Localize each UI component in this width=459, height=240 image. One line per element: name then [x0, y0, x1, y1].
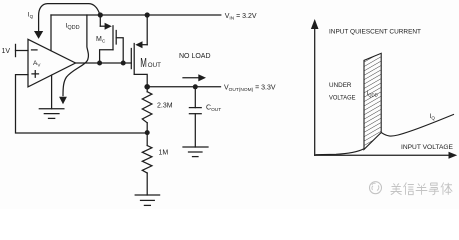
svg-text:UNDER: UNDER: [329, 82, 352, 89]
svg-text:INPUT QUIESCENT CURRENT: INPUT QUIESCENT CURRENT: [329, 28, 421, 35]
watermark text 美信半导体: [391, 183, 453, 195]
ground 1M: [135, 195, 159, 205]
svg-text:2.3M: 2.3M: [157, 103, 173, 110]
wire gate bus MC drain to MOUT gate: [100, 62, 132, 64]
source 1V reference: [16, 44, 29, 56]
arrow load current (no load): [183, 74, 206, 81]
wire op-amp supply drop: [50, 15, 52, 51]
半: [416, 184, 428, 195]
svg-text:INPUT VOLTAGE: INPUT VOLTAGE: [401, 144, 453, 151]
graph hatched IQDD spike region: [364, 53, 381, 149]
svg-text:1V: 1V: [2, 48, 11, 55]
wire feedback to + input: [16, 75, 148, 133]
resistor 2.3M: [142, 87, 152, 133]
美: [391, 184, 402, 195]
信: [403, 183, 413, 195]
node VIN dot at MOUT source: [145, 12, 150, 17]
node VIN dot at MC source: [98, 12, 103, 17]
graph x-axis: [315, 152, 458, 159]
体: [441, 183, 452, 195]
svg-text:AV: AV: [33, 60, 41, 68]
svg-text:IQDD: IQDD: [367, 91, 378, 97]
ground op-amp: [39, 75, 64, 118]
arrow IQ input current: [34, 4, 100, 39]
arrow IQDD supply current: [59, 15, 88, 104]
导: [429, 183, 439, 195]
op-amp A_V: [28, 39, 76, 87]
svg-text:1M: 1M: [159, 150, 169, 157]
resistor 1M: [142, 133, 152, 195]
svg-text:IQ: IQ: [28, 12, 34, 20]
svg-text:M: M: [140, 56, 147, 71]
svg-text:NO LOAD: NO LOAD: [179, 53, 211, 60]
svg-text:OUT: OUT: [148, 62, 161, 69]
svg-text:VOUT(NOM) = 3.3V: VOUT(NOM) = 3.3V: [224, 85, 276, 93]
wire VIN top rail: [51, 14, 221, 16]
svg-text:IQDD: IQDD: [66, 23, 80, 32]
graph y-axis: [311, 19, 319, 155]
label M_OUT: [140, 56, 161, 71]
node VOUT junction: [144, 84, 150, 90]
capacitor C_OUT: [189, 87, 201, 147]
watermark logo icon: [370, 182, 382, 194]
wire op-amp output: [76, 62, 100, 64]
svg-text:IQ: IQ: [430, 113, 436, 120]
wire VOUT: [147, 86, 220, 88]
node feedback junction: [145, 130, 150, 135]
svg-text:COUT: COUT: [206, 105, 221, 113]
graph IQ curve: [316, 115, 454, 155]
svg-text:VOLTAGE: VOLTAGE: [329, 94, 356, 101]
svg-text:MC: MC: [96, 36, 106, 45]
transistor M_C: [100, 15, 124, 63]
transistor M_OUT: [131, 15, 147, 85]
node COUT junction: [193, 84, 198, 89]
node op-amp output junction: [97, 61, 102, 66]
node gate bus junction: [121, 61, 126, 66]
svg-text:VIN = 3.2V: VIN = 3.2V: [225, 13, 257, 21]
ground COUT: [183, 147, 208, 157]
